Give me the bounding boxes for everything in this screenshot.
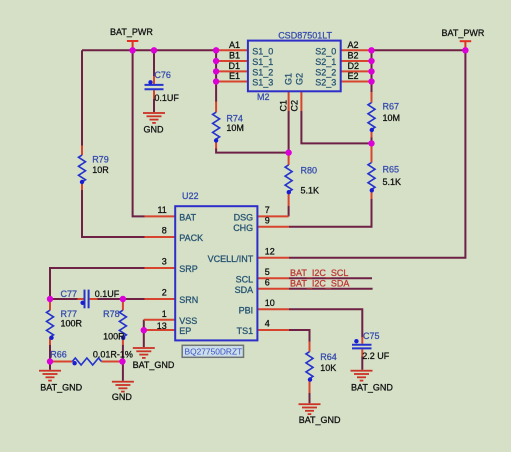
- svg-text:13: 13: [157, 321, 167, 331]
- svg-text:E1: E1: [229, 71, 240, 81]
- svg-text:GND: GND: [112, 392, 133, 402]
- svg-text:S2_2: S2_2: [315, 68, 336, 78]
- svg-text:6: 6: [265, 277, 270, 287]
- svg-text:G2: G2: [294, 73, 304, 85]
- svg-text:EP: EP: [179, 326, 191, 336]
- svg-text:R78: R78: [103, 309, 120, 319]
- svg-text:BAT_GND: BAT_GND: [299, 415, 341, 425]
- svg-text:12: 12: [265, 246, 275, 256]
- svg-text:SDA: SDA: [235, 285, 254, 295]
- svg-text:S2_0: S2_0: [315, 47, 336, 57]
- svg-text:R74: R74: [226, 114, 243, 124]
- svg-text:5: 5: [265, 267, 270, 277]
- svg-text:BAT_GND: BAT_GND: [133, 360, 175, 370]
- svg-text:BAT_I2C_SDA: BAT_I2C_SDA: [290, 278, 349, 288]
- svg-text:TS1: TS1: [237, 326, 254, 336]
- svg-text:SRN: SRN: [179, 295, 198, 305]
- svg-text:7: 7: [265, 205, 270, 215]
- svg-text:100R: 100R: [103, 331, 125, 341]
- svg-text:C2: C2: [289, 100, 299, 112]
- svg-text:S2_3: S2_3: [315, 78, 336, 88]
- svg-text:GND: GND: [144, 124, 165, 134]
- svg-text:R77: R77: [61, 309, 78, 319]
- svg-text:S1_0: S1_0: [252, 47, 273, 57]
- svg-text:0.1UF: 0.1UF: [95, 289, 120, 299]
- svg-text:10K: 10K: [320, 363, 336, 373]
- svg-text:3: 3: [162, 257, 167, 267]
- svg-text:S1_3: S1_3: [252, 78, 273, 88]
- svg-text:E2: E2: [348, 71, 359, 81]
- svg-text:R80: R80: [301, 165, 318, 175]
- svg-text:BAT_PWR: BAT_PWR: [110, 27, 153, 37]
- svg-text:C76: C76: [154, 70, 171, 80]
- svg-text:11: 11: [157, 205, 166, 215]
- svg-text:PBI: PBI: [239, 306, 254, 316]
- svg-text:CSD87501LT: CSD87501LT: [278, 30, 332, 40]
- svg-text:BAT_GND: BAT_GND: [351, 382, 393, 392]
- svg-text:R79: R79: [92, 155, 109, 165]
- svg-text:R66: R66: [50, 349, 67, 359]
- svg-text:0.01R-1%: 0.01R-1%: [93, 349, 133, 359]
- svg-text:DSG: DSG: [234, 213, 254, 223]
- svg-text:0.1UF: 0.1UF: [154, 93, 179, 103]
- svg-text:BAT: BAT: [179, 213, 196, 223]
- svg-text:SCL: SCL: [236, 275, 254, 285]
- svg-text:5.1K: 5.1K: [301, 185, 320, 195]
- svg-text:M2: M2: [257, 92, 270, 102]
- svg-text:S1_2: S1_2: [252, 68, 273, 78]
- svg-text:BAT_I2C_SCL: BAT_I2C_SCL: [290, 268, 348, 278]
- svg-text:4: 4: [265, 319, 270, 329]
- svg-text:BAT_GND: BAT_GND: [40, 383, 82, 393]
- svg-text:VSS: VSS: [179, 316, 197, 326]
- svg-text:CHG: CHG: [233, 223, 253, 233]
- svg-text:1: 1: [162, 309, 167, 319]
- svg-text:BQ27750DRZT: BQ27750DRZT: [185, 346, 243, 356]
- svg-text:C75: C75: [363, 331, 380, 341]
- svg-text:C1: C1: [279, 100, 289, 112]
- svg-text:R65: R65: [383, 165, 400, 175]
- svg-text:D1: D1: [228, 61, 240, 71]
- svg-text:S1_1: S1_1: [252, 57, 273, 67]
- svg-text:10M: 10M: [383, 113, 401, 123]
- svg-text:B2: B2: [348, 51, 359, 61]
- svg-text:A2: A2: [348, 40, 359, 50]
- svg-text:5.1K: 5.1K: [383, 177, 402, 187]
- svg-text:B1: B1: [229, 51, 240, 61]
- svg-text:G1: G1: [284, 73, 294, 85]
- svg-text:8: 8: [162, 226, 167, 236]
- svg-text:10: 10: [265, 298, 275, 308]
- svg-text:SRP: SRP: [179, 264, 198, 274]
- svg-text:PACK: PACK: [179, 233, 203, 243]
- svg-text:S2_1: S2_1: [315, 57, 336, 67]
- svg-text:C77: C77: [61, 289, 78, 299]
- svg-text:VCELL/INT: VCELL/INT: [208, 254, 254, 264]
- svg-text:D2: D2: [348, 61, 360, 71]
- svg-text:10R: 10R: [92, 165, 109, 175]
- svg-text:9: 9: [265, 215, 270, 225]
- svg-text:10M: 10M: [226, 123, 244, 133]
- svg-text:U22: U22: [182, 191, 199, 201]
- svg-text:R67: R67: [383, 102, 400, 112]
- svg-text:A1: A1: [229, 40, 240, 50]
- svg-text:2: 2: [162, 288, 167, 298]
- svg-text:2.2 UF: 2.2 UF: [362, 351, 390, 361]
- svg-text:BAT_PWR: BAT_PWR: [442, 28, 485, 38]
- svg-text:100R: 100R: [61, 319, 83, 329]
- svg-text:R64: R64: [320, 352, 337, 362]
